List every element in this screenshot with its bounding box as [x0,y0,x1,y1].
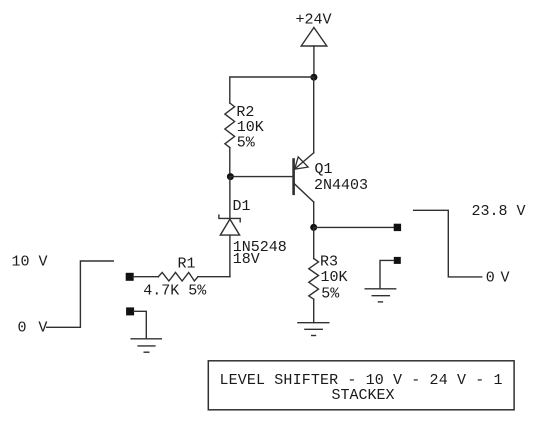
svg-text:10K: 10K [321,269,348,286]
Q1 labels [314,161,368,194]
transistor Q1 [294,153,314,202]
ground under R3 [298,323,329,336]
svg-text:D1: D1 [233,198,251,215]
svg-text:+24V: +24V [296,12,332,29]
svg-text:2N4403: 2N4403 [314,177,368,194]
wire: base node to Q1 base [230,176,293,178]
wire: R3 bottom to ground [313,299,315,323]
svg-text:Q1: Q1 [315,161,333,178]
R3 value labels [320,254,348,303]
wire: emitter up to V24 node [313,77,315,153]
svg-text:5%: 5% [237,135,256,152]
wire: input terminal to R1 [133,276,158,278]
svg-text:5%: 5% [321,286,340,303]
D1 labels [233,198,287,268]
ground right [365,289,396,302]
svg-text:18V: 18V [233,251,260,268]
ground under input [131,339,161,352]
wire: output node to output terminal [314,226,394,228]
svg-text:R3: R3 [320,254,338,271]
title box [208,361,514,410]
resistor R3 [309,259,319,300]
svg-text:4.7K 5%: 4.7K 5% [143,283,207,300]
svg-text:STACKEX: STACKEX [331,387,394,404]
wire: R1 right end to D1 column [198,276,230,278]
svg-text:R1: R1 [178,255,196,272]
svg-text:0V: 0V [18,319,48,336]
wire: input ground terminal to ground [134,311,147,339]
svg-text:23.8 V: 23.8 V [472,203,526,220]
node V24 junction [310,74,317,81]
input terminal square [126,273,134,281]
output sense terminal square [394,257,401,264]
wire: sense terminal to right ground [380,260,394,288]
output node junction [310,224,317,231]
wire: collector down to output node [313,202,315,227]
resistor R1 [158,272,198,281]
base node junction [227,173,234,180]
wire: R2 bottom to base node [229,148,231,177]
output terminal square [394,224,401,231]
output waveform [414,210,482,277]
wire: output node down to R3 [313,227,315,258]
wire: +24V symbol to node V24 [313,46,315,77]
R2 value labels [236,104,263,152]
+24V power symbol [301,28,327,47]
svg-text:10 V: 10 V [12,254,48,271]
svg-text:0V: 0V [486,269,510,286]
zener diode D1 [219,215,240,235]
input ground terminal square [126,307,134,315]
wire: base node down to D1 cathode [229,177,231,219]
input waveform [47,261,114,327]
resistor R2 [225,103,235,148]
wire: D1 anode down to R1 level [229,235,231,277]
wire: node V24 to R2 top [230,77,314,103]
R1 labels [143,255,207,299]
